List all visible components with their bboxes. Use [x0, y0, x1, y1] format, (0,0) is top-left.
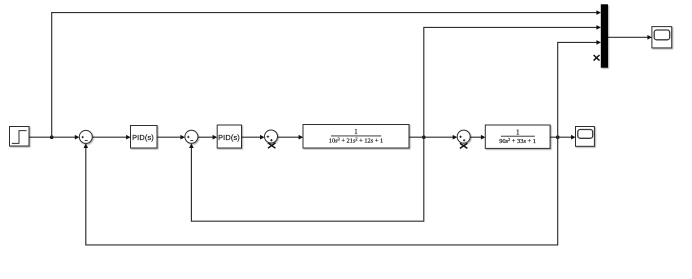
svg-text:PID(s): PID(s) — [132, 133, 154, 142]
wire: PID1 output to Sum2 — [157, 135, 185, 140]
svg-text:90s2 + 33s + 1: 90s2 + 33s + 1 — [499, 137, 536, 145]
PID controller block 2 — [217, 125, 241, 148]
sum junction Sum4 (+ left, + bottom unconnected) — [457, 130, 470, 143]
wire: branch from TF2 output up and right to Mux input 3 — [558, 40, 601, 137]
TF2 fraction bar — [501, 135, 535, 137]
wire: Sum3 output to TransferFcn1 — [278, 135, 304, 140]
sum junction Sum2 (+ left, - bottom feedback) — [185, 130, 198, 143]
wire: outer feedback from TF2 output down, left, and up into Sum1 bottom — [84, 137, 558, 245]
Scope2 screen — [654, 30, 670, 40]
transfer function block 2: 1/(90s^2+33s+1) — [485, 125, 550, 148]
wire: Step output to Sum1 — [29, 135, 79, 140]
wire: Sum1 output to PID1 — [92, 135, 131, 140]
unconnected-port X below Sum3 — [268, 143, 275, 148]
svg-text:PID(s): PID(s) — [218, 133, 240, 142]
wire: branch from TF1 output up and right to Mux input 2 — [424, 25, 601, 137]
Scope1 screen — [578, 130, 593, 139]
scope block Scope1 — [576, 127, 595, 147]
node: branch junction after TransferFcn2 — [556, 135, 560, 139]
node: branch junction after TransferFcn1 — [422, 135, 426, 139]
step source block — [10, 127, 30, 147]
wire: Sum4 output to TransferFcn2 — [470, 135, 485, 140]
unconnected-port X at Mux input 4 — [594, 55, 600, 61]
TF1 fraction bar — [331, 135, 381, 137]
sum junction Sum1 (+ left, - bottom feedback) — [79, 130, 92, 143]
PID controller block 1 — [131, 126, 158, 149]
svg-text:1: 1 — [354, 128, 358, 136]
unconnected-port X below Sum4 — [460, 143, 468, 148]
wire: PID2 output to Sum3 — [242, 135, 265, 140]
sum junction Sum3 (+ left, + bottom unconnected) — [265, 130, 278, 143]
transfer function block 1: 1/(10s^3+21s^2+12s+1) — [303, 125, 409, 149]
mux block (vertical black bar) — [601, 4, 608, 67]
wire: inner feedback from TF1 output down, left, and up into Sum2 bottom — [189, 137, 424, 221]
wire: Mux output to Scope2 — [608, 35, 652, 40]
wire: TransferFcn2 output to Scope1 — [550, 135, 576, 140]
wire: branch from step output up and right to Mux input 1 — [52, 10, 601, 137]
scope block Scope2 — [652, 27, 672, 48]
node: branch junction on step output line — [50, 135, 54, 139]
svg-text:1: 1 — [516, 128, 520, 136]
wire: TransferFcn1 output to Sum4 — [409, 135, 457, 140]
wire: Sum2 output to PID2 — [198, 135, 217, 140]
